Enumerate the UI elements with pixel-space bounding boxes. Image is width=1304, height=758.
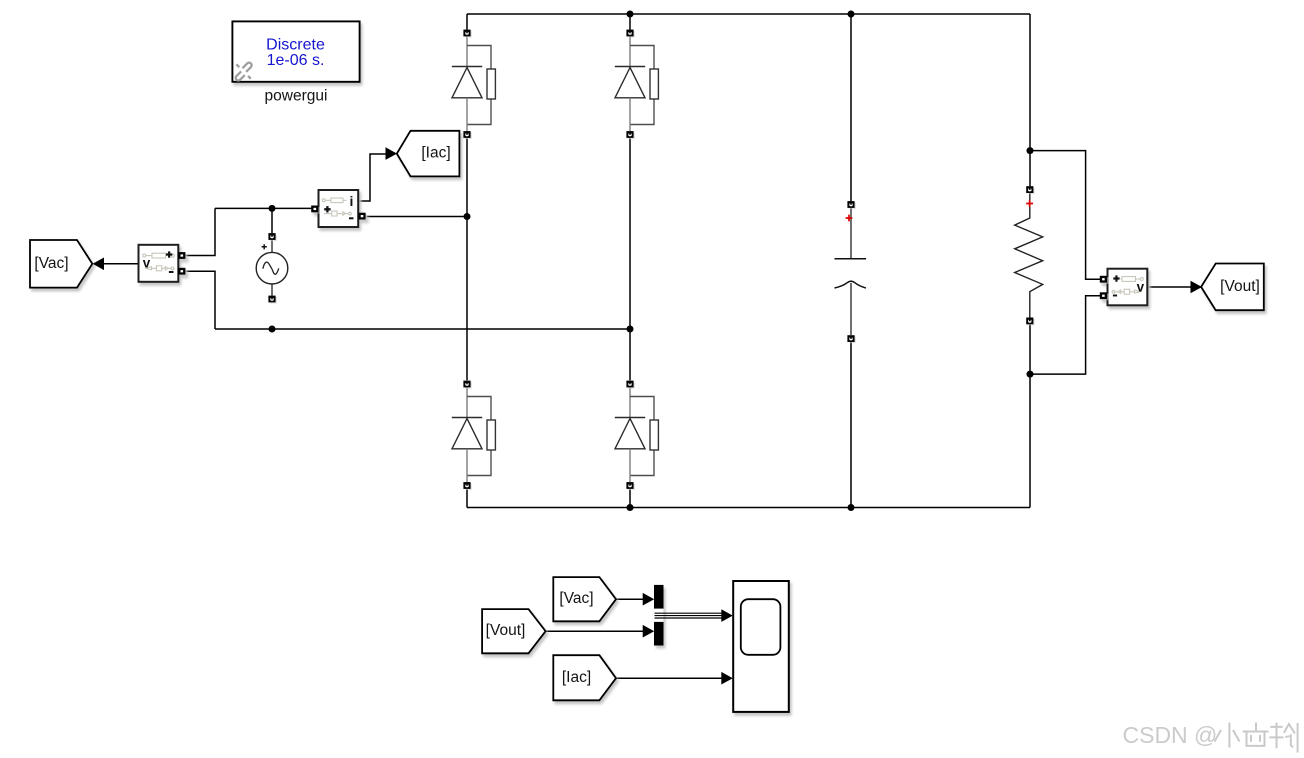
node: bottom wire at right bridge: [627, 326, 634, 333]
V2 plus port: [1100, 276, 1109, 284]
I1 plus port: [311, 206, 320, 214]
wire: current measurement i output to Iac tag: [358, 154, 387, 201]
arrowhead into goto Vout: [1191, 281, 1203, 294]
node: bottom rail at capacitor: [848, 504, 855, 511]
wire: current measurement minus to left bridge node: [362, 216, 467, 218]
wire: diode D2 top stub: [629, 14, 631, 30]
capacitor C: [835, 201, 867, 343]
wire: mux output bus to scope: [655, 613, 722, 618]
voltage measurement block V2 (Vout): [1100, 269, 1148, 306]
wire: resistor bottom stub to bottom rail: [1029, 324, 1031, 507]
wire: top DC bus rail: [467, 13, 1030, 15]
wire: capacitor top wire: [850, 14, 852, 201]
node: resistor top: [1027, 147, 1034, 154]
wire: diode D3 bottom stub: [466, 489, 468, 507]
svg-text:CSDN @: CSDN @: [1123, 722, 1218, 748]
wire: right bridge midpoint vertical: [629, 138, 631, 380]
resistor R positive port: [1026, 186, 1035, 194]
wire: resistor top stub: [1029, 151, 1031, 187]
svg-text:Discrete: Discrete: [266, 36, 325, 53]
resistor R polarity plus mark: [1026, 200, 1033, 207]
capacitor C positive port: [847, 201, 856, 209]
V1 minus port: [178, 268, 187, 276]
arrowhead scope input 1: [721, 609, 733, 622]
svg-text:[Vout]: [Vout]: [486, 622, 526, 639]
diode D3 with snubber: [452, 381, 496, 491]
wire: left bridge midpoint vertical: [466, 138, 468, 380]
svg-text:i: i: [350, 193, 354, 209]
wire: source top stub: [271, 208, 273, 233]
arrowhead mux input 2: [643, 625, 655, 638]
voltage measurement block V1: [139, 245, 187, 282]
powergui block: [232, 21, 359, 81]
diode D1 with snubber: [452, 30, 496, 140]
svg-text:1e-06 s.: 1e-06 s.: [267, 52, 325, 69]
V2 minus port: [1100, 292, 1109, 300]
goto tag [Vout]: [1201, 264, 1264, 311]
arrowhead into goto Vac: [93, 258, 104, 271]
svg-text:powergui: powergui: [265, 88, 328, 105]
current measurement block I1: [311, 190, 367, 227]
wire: source bottom horizontal to right bridge node: [215, 328, 630, 330]
wire: from Iac to scope input 2: [616, 677, 722, 679]
arrowhead scope input 2: [721, 672, 733, 685]
node: source minus junction: [269, 326, 276, 333]
wire: diode D1 top stub: [466, 14, 468, 30]
wire: diode D4 bottom stub: [629, 489, 631, 507]
wire: load bottom node to voltage measurement minus: [1030, 296, 1100, 374]
watermark CSDN: [1123, 722, 1298, 753]
wire: capacitor bottom wire: [850, 342, 852, 508]
capacitor C polarity plus mark: [846, 215, 853, 222]
diode D4 with snubber: [615, 381, 659, 491]
node: source plus junction: [269, 205, 276, 212]
resistor R load: [1015, 186, 1043, 325]
svg-text:[Iac]: [Iac]: [421, 145, 450, 162]
arrowhead mux input 1: [643, 593, 655, 606]
capacitor C negative port: [847, 335, 856, 343]
mux output notch: [654, 609, 664, 622]
svg-text:v: v: [143, 256, 151, 271]
wire: Vac goto tag wire: [104, 263, 139, 265]
svg-text:[Iac]: [Iac]: [562, 669, 591, 686]
wire: top horizontal to current measurement plus: [215, 207, 314, 209]
from tag [Vac]: [553, 577, 616, 621]
AC source negative port: [268, 296, 277, 304]
wire: voltage measurement minus L wire: [185, 271, 215, 329]
wire: load node to voltage measurement plus: [1030, 151, 1100, 280]
mux block: [654, 585, 664, 646]
svg-text:v: v: [1137, 280, 1145, 295]
svg-text:[Vout]: [Vout]: [1220, 278, 1260, 295]
AC voltage source: [256, 233, 288, 304]
from tag [Iac]: [553, 655, 616, 700]
node: top rail at D2: [627, 11, 634, 18]
I1 minus port: [358, 213, 367, 221]
node: top rail at capacitor: [848, 11, 855, 18]
arrowhead into goto Iac: [386, 147, 398, 160]
diode D2 with snubber: [615, 30, 659, 140]
resistor R negative port: [1026, 318, 1035, 326]
V1 plus port: [178, 252, 187, 260]
wire: bottom DC bus rail: [467, 507, 1030, 509]
node: bottom rail at D4: [627, 504, 634, 511]
wire: from Vout to mux input 2: [546, 630, 644, 632]
wire: voltage measurement plus L wire: [185, 208, 215, 255]
svg-text:[Vac]: [Vac]: [34, 255, 68, 272]
svg-text:[Vac]: [Vac]: [559, 590, 593, 607]
wire: top rail right drop to load: [1029, 14, 1031, 151]
node: current measurement at left bridge: [464, 213, 471, 220]
wire: from Vac to mux input 1: [616, 598, 644, 600]
wire: Vout measurement output wire: [1147, 286, 1191, 288]
goto tag [Iac]: [397, 131, 460, 177]
goto tag [Vac]: [30, 240, 92, 288]
AC source positive port: [268, 233, 277, 241]
from tag [Vout]: [482, 609, 545, 653]
node: resistor bottom: [1027, 371, 1034, 378]
scope block: [733, 581, 789, 712]
